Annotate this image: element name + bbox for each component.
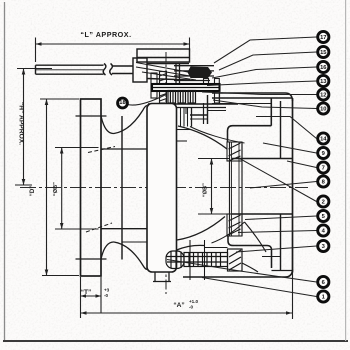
svg-text:“T”: “T”	[81, 289, 92, 296]
svg-text:17: 17	[320, 35, 326, 41]
svg-text:15: 15	[320, 50, 327, 56]
svg-text:16: 16	[320, 65, 327, 71]
svg-text:13: 13	[320, 79, 327, 85]
svg-text:-0: -0	[189, 305, 194, 310]
svg-text:10: 10	[320, 107, 326, 113]
svg-text:+1.0: +1.0	[189, 299, 199, 304]
svg-text:“ØB”: “ØB”	[203, 183, 209, 197]
svg-text:“L” APPROX.: “L” APPROX.	[80, 30, 131, 39]
svg-text:-0: -0	[104, 293, 109, 298]
svg-text:“D”: “D”	[30, 186, 36, 196]
svg-text:2: 2	[322, 200, 325, 206]
svg-text:14: 14	[320, 137, 327, 143]
svg-text:7: 7	[322, 166, 325, 172]
svg-text:+3: +3	[104, 288, 110, 293]
svg-text:12: 12	[320, 93, 326, 99]
svg-text:18: 18	[119, 100, 126, 106]
svg-text:“ØB”: “ØB”	[53, 182, 59, 196]
svg-text:“A”: “A”	[173, 302, 184, 309]
svg-text:“H” APPROX.: “H” APPROX.	[18, 102, 25, 145]
